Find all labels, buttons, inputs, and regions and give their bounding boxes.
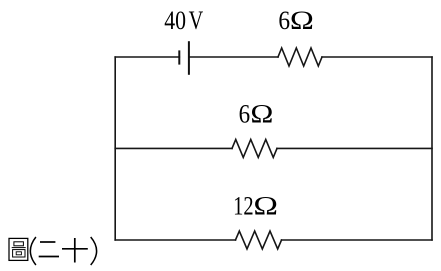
svg-text:12: 12	[233, 192, 254, 221]
svg-text:Ω: Ω	[250, 100, 273, 129]
svg-text:Ω: Ω	[290, 6, 314, 35]
svg-text:V: V	[189, 6, 204, 35]
svg-text:40: 40	[164, 6, 186, 35]
svg-text:6: 6	[239, 100, 251, 129]
svg-text:6: 6	[278, 6, 290, 35]
svg-text:Ω: Ω	[253, 192, 278, 221]
